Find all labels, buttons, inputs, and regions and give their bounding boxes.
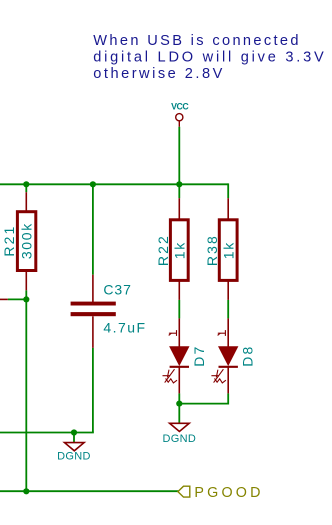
wire left stub at node bbox=[8, 298, 27, 300]
svg-text:1k: 1k bbox=[172, 241, 188, 259]
wire DGND2 stem bbox=[178, 404, 180, 424]
diode D7 bbox=[170, 318, 189, 393]
D7 pin 1 number bbox=[169, 330, 177, 336]
resistor R22 bbox=[170, 198, 188, 300]
svg-text:R21: R21 bbox=[1, 225, 17, 257]
wire R21 bottom bbox=[25, 290, 27, 299]
svg-text:DGND: DGND bbox=[163, 433, 197, 445]
wire VCC drop bbox=[178, 127, 180, 185]
svg-text:DGND: DGND bbox=[57, 451, 91, 463]
ground DGND2 bbox=[170, 423, 190, 431]
svg-text:300k: 300k bbox=[19, 222, 35, 259]
wire to R22 top bbox=[178, 184, 180, 198]
svg-text:D8: D8 bbox=[239, 345, 255, 367]
capacitor C37 bbox=[71, 275, 116, 348]
svg-text:R38: R38 bbox=[204, 234, 220, 266]
svg-text:C37: C37 bbox=[103, 282, 131, 298]
svg-text:When USB is connected: When USB is connected bbox=[93, 33, 301, 49]
junction at PGOOD wire bbox=[23, 488, 29, 494]
junction at bus/VCC/R22 bbox=[176, 181, 182, 187]
wire corner down to R38 bbox=[227, 183, 229, 198]
wire to C37 top bbox=[92, 184, 94, 274]
hierarchical label PGOOD bbox=[178, 486, 190, 497]
junction node R21 bottom bbox=[23, 296, 29, 302]
junction at D7 bottom bbox=[176, 401, 182, 407]
svg-text:R22: R22 bbox=[155, 234, 171, 266]
wire D8 bottom bbox=[227, 393, 229, 404]
wire long vertical left bbox=[25, 299, 27, 491]
wire bottom PGOOD horizontal bbox=[0, 490, 179, 492]
svg-text:1k: 1k bbox=[221, 241, 237, 259]
wire to R21 top bbox=[25, 184, 27, 192]
wire joining D7 D8 bbox=[179, 403, 228, 405]
junction at DGND1 bbox=[71, 429, 77, 435]
wire R38 to D8 bbox=[227, 300, 229, 319]
D7 pin 2 number bbox=[163, 369, 178, 383]
diode D8 bbox=[219, 318, 238, 393]
D8 pin 1 number bbox=[218, 330, 226, 336]
wire bottom-left horizontal bbox=[0, 432, 94, 434]
pin stub from off-page component bbox=[0, 298, 8, 300]
svg-text:D7: D7 bbox=[191, 345, 207, 367]
svg-text:otherwise 2.8V: otherwise 2.8V bbox=[93, 66, 225, 82]
svg-text:PGOOD: PGOOD bbox=[194, 485, 263, 501]
wire main horizontal bus y=184 bbox=[0, 183, 228, 185]
wire D7 bottom bbox=[178, 393, 180, 403]
svg-text:4.7uF: 4.7uF bbox=[103, 319, 146, 335]
wire R22 to D7 bbox=[178, 300, 180, 319]
svg-text:digital LDO will give 3.3V: digital LDO will give 3.3V bbox=[93, 50, 326, 66]
resistor R38 bbox=[219, 198, 237, 300]
ground DGND1 bbox=[65, 443, 85, 451]
svg-text:VCC: VCC bbox=[171, 102, 189, 112]
wire DGND1 stem bbox=[73, 433, 75, 443]
note text comment bbox=[93, 33, 326, 82]
junction at bus/R21 bbox=[23, 181, 29, 187]
D8 pin 2 number bbox=[211, 369, 226, 383]
resistor R21 bbox=[17, 192, 35, 290]
junction at bus/C37 bbox=[90, 181, 96, 187]
power symbol VCC bbox=[176, 114, 183, 127]
wire C37 bottom vertical bbox=[92, 348, 94, 433]
